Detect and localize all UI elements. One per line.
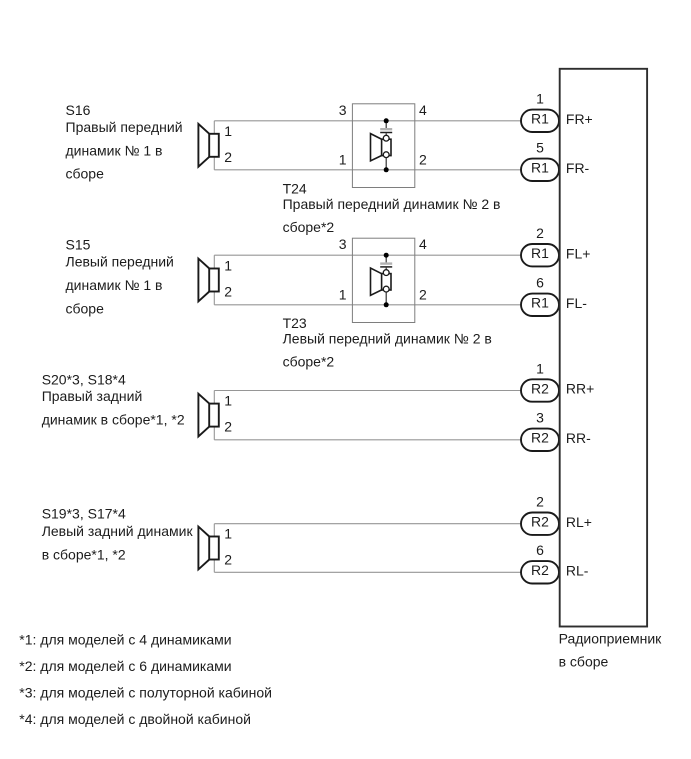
svg-text:1: 1	[224, 123, 232, 139]
svg-text:1: 1	[224, 393, 232, 409]
svg-text:S15: S15	[66, 237, 91, 253]
svg-text:R1: R1	[531, 160, 549, 176]
svg-text:R2: R2	[531, 430, 549, 446]
connector R1 pin 5 (FR-)	[521, 159, 559, 181]
connector R2 pin 3 (RR-)	[521, 429, 559, 451]
svg-text:RR+: RR+	[566, 381, 594, 397]
svg-text:RR-: RR-	[566, 430, 591, 446]
svg-text:в сборе*1, *2: в сборе*1, *2	[42, 546, 126, 562]
capacitor C in T23 plate 1	[380, 262, 392, 264]
svg-text:4: 4	[419, 236, 427, 252]
svg-text:1: 1	[339, 152, 347, 168]
svg-text:1: 1	[224, 526, 232, 542]
tweeter assembly box T24	[352, 104, 414, 188]
wire S20 pin 1 to R2 pin 1 (RR+)	[214, 390, 521, 392]
svg-text:FL+: FL+	[566, 245, 591, 261]
wire S19 pin 1 to R2 pin 2 (RL+)	[214, 523, 521, 525]
svg-text:2: 2	[224, 419, 232, 435]
junction dot on bottom wire in T23	[384, 302, 389, 307]
connector R2 pin 6 (RL-)	[521, 561, 559, 583]
svg-text:Правый передний: Правый передний	[66, 119, 183, 135]
wire S15 pin 1 to R1 pin 2 (FL+)	[214, 254, 521, 256]
svg-text:RL-: RL-	[566, 562, 589, 578]
wire stub S19 pin 1	[213, 524, 215, 537]
T23 tweeter terminal circle bottom	[383, 286, 389, 292]
capacitor C in T24 plate 2	[380, 132, 392, 134]
svg-text:Радиоприемник: Радиоприемник	[559, 631, 663, 647]
svg-text:сборе*2: сборе*2	[283, 219, 335, 235]
capacitor C in T24 plate 1	[380, 128, 392, 130]
svg-text:3: 3	[339, 102, 347, 118]
svg-text:1: 1	[224, 258, 232, 274]
svg-text:FL-: FL-	[566, 295, 587, 311]
junction dot on top wire in T24	[384, 118, 389, 123]
svg-text:FR+: FR+	[566, 111, 593, 127]
speaker S15	[198, 259, 218, 302]
svg-text:T23: T23	[283, 315, 307, 331]
wire stub S16 pin 1	[213, 121, 215, 134]
svg-text:R2: R2	[531, 380, 549, 396]
svg-text:в сборе: в сборе	[559, 654, 609, 670]
wire stub S16 pin 2	[213, 157, 215, 170]
capacitor C in T23 plate 2	[380, 266, 392, 268]
svg-text:сборе: сборе	[66, 166, 105, 182]
svg-text:2: 2	[224, 552, 232, 568]
svg-text:*4: для моделей с двойной каби: *4: для моделей с двойной кабиной	[19, 711, 251, 727]
label speaker S15	[66, 237, 174, 317]
T24 internal wire top segment	[385, 121, 387, 128]
connector R1 pin 1 (FR+)	[521, 110, 559, 132]
svg-text:5: 5	[536, 140, 544, 156]
svg-text:6: 6	[536, 275, 544, 291]
label speaker S16	[66, 102, 183, 182]
svg-text:4: 4	[419, 102, 427, 118]
svg-text:3: 3	[339, 236, 347, 252]
wire stub S20 pin 2	[213, 427, 215, 440]
svg-text:2: 2	[224, 284, 232, 300]
wire S20 pin 2 to R2 pin 3 (RR-)	[214, 439, 521, 441]
svg-text:R1: R1	[531, 245, 549, 261]
T23 internal wire tweeter to bottom junction	[385, 291, 387, 305]
svg-text:*2: для моделей с 6 динамиками: *2: для моделей с 6 динамиками	[19, 658, 231, 674]
svg-text:3: 3	[536, 410, 544, 426]
svg-text:RL+: RL+	[566, 514, 592, 530]
wire stub S15 pin 2	[213, 292, 215, 305]
svg-text:R2: R2	[531, 562, 549, 578]
svg-text:динамик в сборе*1, *2: динамик в сборе*1, *2	[42, 411, 185, 427]
label tweeter T23	[283, 315, 492, 370]
wire stub S19 pin 2	[213, 560, 215, 573]
svg-text:R2: R2	[531, 514, 549, 530]
speaker S19	[198, 527, 218, 570]
svg-text:1: 1	[339, 287, 347, 303]
svg-text:FR-: FR-	[566, 160, 590, 176]
connector R2 pin 1 (RR+)	[521, 379, 559, 401]
svg-text:2: 2	[419, 152, 427, 168]
svg-text:1: 1	[536, 91, 544, 107]
svg-text:6: 6	[536, 542, 544, 558]
svg-text:сборе: сборе	[66, 300, 105, 316]
connector R1 pin 2 (FL+)	[521, 244, 559, 266]
svg-text:Правый задний: Правый задний	[42, 388, 143, 404]
label tweeter T24	[283, 180, 501, 235]
wire S15 pin 2 to R1 pin 6 (FL-)	[214, 304, 521, 306]
T24 internal wire capacitor to tweeter	[385, 133, 387, 137]
T23 internal wire capacitor to tweeter	[385, 268, 387, 272]
wire S16 pin 1 to R1 pin 1 (FR+)	[214, 120, 521, 122]
connector R2 pin 2 (RL+)	[521, 513, 559, 535]
svg-text:*1: для моделей с 4 динамиками: *1: для моделей с 4 динамиками	[19, 632, 231, 648]
svg-text:2: 2	[536, 494, 544, 510]
svg-text:2: 2	[536, 225, 544, 241]
junction dot on bottom wire in T24	[384, 167, 389, 172]
svg-text:Правый передний динамик № 2 в: Правый передний динамик № 2 в	[283, 196, 501, 212]
speaker S20	[198, 394, 218, 437]
radio receiver box (Радиоприемник в сборе)	[560, 69, 647, 627]
junction dot on top wire in T23	[384, 253, 389, 258]
svg-text:1: 1	[536, 360, 544, 376]
wire stub S15 pin 1	[213, 255, 215, 268]
svg-text:T24: T24	[283, 180, 307, 196]
svg-text:S20*3, S18*4: S20*3, S18*4	[42, 371, 126, 387]
tweeter assembly box T23	[352, 238, 414, 322]
T23 internal wire top segment	[385, 255, 387, 262]
svg-text:сборе*2: сборе*2	[283, 353, 335, 369]
T23 tweeter terminal circle top	[383, 270, 389, 276]
speaker S16	[198, 124, 218, 167]
wire stub S20 pin 1	[213, 391, 215, 404]
label speaker S19/S17	[42, 506, 194, 563]
svg-text:2: 2	[224, 149, 232, 165]
tweeter speaker in T23	[371, 268, 392, 295]
svg-text:2: 2	[419, 287, 427, 303]
connector R1 pin 6 (FL-)	[521, 294, 559, 316]
T24 tweeter terminal circle top	[383, 135, 389, 141]
svg-text:R1: R1	[531, 111, 549, 127]
svg-text:динамик № 1 в: динамик № 1 в	[66, 277, 163, 293]
svg-text:Левый задний динамик: Левый задний динамик	[42, 523, 194, 539]
svg-text:динамик № 1 в: динамик № 1 в	[66, 143, 163, 159]
label speaker S20/S18	[42, 371, 185, 427]
T24 tweeter terminal circle bottom	[383, 152, 389, 158]
svg-text:S16: S16	[66, 102, 91, 118]
svg-text:Левый передний: Левый передний	[66, 253, 174, 269]
wire S16 pin 2 to R1 pin 5 (FR-)	[214, 169, 521, 171]
T24 internal wire tweeter to bottom junction	[385, 157, 387, 170]
svg-text:S19*3, S17*4: S19*3, S17*4	[42, 506, 126, 522]
svg-text:*3: для моделей с полуторной к: *3: для моделей с полуторной кабиной	[19, 684, 272, 700]
svg-text:R1: R1	[531, 295, 549, 311]
svg-text:Левый передний динамик № 2 в: Левый передний динамик № 2 в	[283, 330, 492, 346]
wire S19 pin 2 to R2 pin 6 (RL-)	[214, 571, 521, 573]
tweeter speaker in T24	[371, 134, 392, 161]
